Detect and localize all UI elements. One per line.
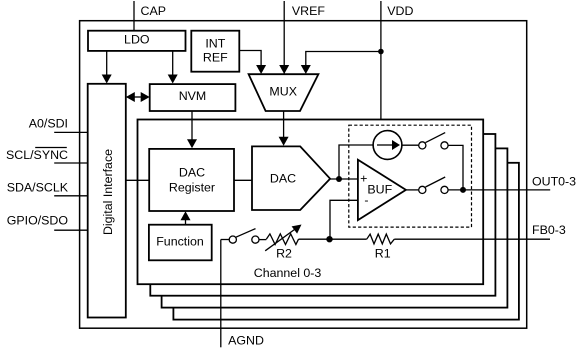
svg-text:INT: INT bbox=[205, 36, 225, 50]
pin OUT0-3 bbox=[448, 175, 576, 190]
svg-text:GPIO/SDO: GPIO/SDO bbox=[7, 213, 69, 227]
wire: NVM to DAC Register bbox=[187, 111, 197, 148]
svg-text:Digital Interface: Digital Interface bbox=[101, 149, 115, 235]
pin FB0-3 bbox=[394, 223, 566, 239]
pin VDD bbox=[381, 1, 414, 120]
wire: DAC Register to DAC bbox=[234, 179, 252, 181]
interface block Digital Interface bbox=[88, 84, 126, 318]
pin A0/SDI bbox=[29, 117, 89, 133]
svg-text:REF: REF bbox=[203, 51, 228, 65]
switch S2 (output enable) bbox=[419, 177, 448, 193]
wire: LDO to NVM bbox=[168, 51, 178, 84]
svg-text:OUT0-3: OUT0-3 bbox=[532, 175, 576, 189]
channel box 2 bbox=[150, 134, 495, 296]
wire: AGND to switch S3 bbox=[221, 239, 229, 241]
svg-text:SCL/SYNC: SCL/SYNC bbox=[6, 148, 68, 162]
node: VDD junction dot bbox=[378, 49, 384, 55]
outer device border bbox=[80, 21, 527, 329]
resistor R2 (programmable) bbox=[265, 225, 301, 261]
svg-text:R2: R2 bbox=[276, 246, 292, 260]
svg-text:FB0-3: FB0-3 bbox=[532, 223, 566, 237]
pin GPIO/SDO bbox=[7, 213, 89, 230]
current source I1 bbox=[373, 131, 402, 160]
register DAC Register bbox=[149, 149, 234, 211]
svg-text:LDO: LDO bbox=[124, 32, 150, 46]
svg-text:DAC: DAC bbox=[270, 172, 296, 186]
switch S3 (R2 ground switch) bbox=[229, 229, 259, 244]
wire: feedback to BUF - input bbox=[330, 200, 358, 239]
pin VREF bbox=[284, 1, 325, 74]
channel box 1 (front, Channel 0-3) bbox=[138, 120, 484, 285]
wire: LDO to Digital Interface bbox=[102, 51, 112, 84]
wire: Function to DAC Register bbox=[181, 211, 191, 224]
wire: VREF arrowhead into MUX bbox=[279, 65, 289, 74]
wire: Digital Interface to DAC Register bbox=[126, 179, 149, 181]
wire: bidirectional arrow Digital Interface to NVM bbox=[126, 92, 150, 102]
channel box 4 (back) bbox=[173, 163, 519, 320]
svg-text:Register: Register bbox=[169, 180, 215, 194]
switch S1 (current source enable) bbox=[419, 133, 448, 149]
svg-text:Channel 0-3: Channel 0-3 bbox=[254, 266, 322, 280]
dashed output-stage box bbox=[349, 125, 472, 227]
svg-text:+: + bbox=[360, 171, 367, 185]
svg-text:DAC: DAC bbox=[179, 166, 205, 180]
mux MUX bbox=[249, 74, 319, 111]
wire: node to R1 bbox=[330, 238, 367, 240]
block Function bbox=[149, 225, 212, 261]
wire: switch S3 to R2 bbox=[259, 239, 266, 241]
pin SDA/SCLK bbox=[7, 180, 89, 195]
channel box 3 bbox=[162, 148, 508, 307]
svg-text:Function: Function bbox=[156, 235, 204, 249]
svg-text:VREF: VREF bbox=[292, 4, 325, 18]
node: output junction dot bbox=[460, 187, 466, 193]
svg-text:CAP: CAP bbox=[141, 4, 166, 18]
wire: INT REF to MUX bbox=[239, 51, 266, 75]
svg-text:NVM: NVM bbox=[179, 89, 207, 103]
pin SCL/SYNC bbox=[6, 148, 88, 164]
regulator LDO bbox=[88, 31, 186, 51]
reference INT REF bbox=[191, 31, 239, 72]
resistor R1 bbox=[367, 234, 395, 260]
wire: current source to switch S1 bbox=[402, 144, 419, 146]
wire: switch S1 to output node bbox=[448, 145, 463, 190]
wire: R2 to feedback node bbox=[299, 238, 331, 240]
wire: MUX output to DAC bbox=[279, 111, 289, 146]
wire: DAC output to BUF + input bbox=[330, 178, 358, 180]
svg-text:-: - bbox=[364, 193, 368, 207]
op-amp BUF bbox=[358, 160, 406, 220]
svg-text:VDD: VDD bbox=[387, 4, 413, 18]
node: DAC output junction dot bbox=[336, 176, 342, 182]
wire: junction up to current source bbox=[339, 145, 373, 179]
pin AGND bbox=[221, 240, 264, 348]
wire: VDD branch to MUX bbox=[301, 52, 381, 75]
svg-text:SDA/SCLK: SDA/SCLK bbox=[7, 180, 69, 194]
svg-text:A0/SDI: A0/SDI bbox=[29, 117, 68, 131]
svg-text:BUF: BUF bbox=[367, 182, 392, 196]
node: feedback junction dot bbox=[326, 236, 332, 242]
wire: BUF output to switch S2 bbox=[406, 189, 419, 191]
pin CAP bbox=[134, 1, 166, 31]
memory NVM bbox=[150, 84, 236, 111]
svg-text:AGND: AGND bbox=[228, 333, 264, 347]
svg-text:R1: R1 bbox=[375, 247, 391, 261]
dac DAC bbox=[252, 146, 330, 210]
svg-text:MUX: MUX bbox=[269, 85, 297, 99]
